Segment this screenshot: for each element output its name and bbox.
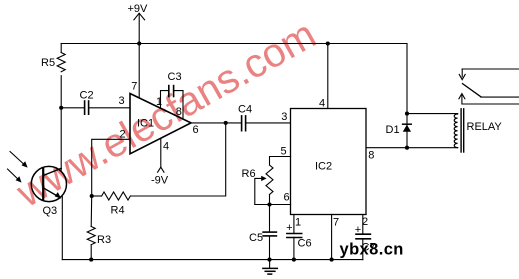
svg-text:+: + (355, 224, 361, 236)
svg-text:R4: R4 (111, 205, 125, 217)
svg-text:5: 5 (281, 146, 287, 158)
svg-text:2: 2 (362, 216, 368, 228)
svg-text:+9V: +9V (128, 3, 149, 15)
svg-text:6: 6 (193, 124, 199, 136)
svg-text:D1: D1 (386, 124, 400, 136)
svg-text:8: 8 (368, 150, 374, 162)
svg-text:C2: C2 (80, 90, 94, 102)
svg-text:R6: R6 (242, 168, 256, 180)
svg-text:4: 4 (319, 98, 325, 110)
svg-text:-9V: -9V (151, 175, 169, 187)
svg-text:C5: C5 (249, 232, 263, 244)
svg-text:R5: R5 (41, 57, 55, 69)
svg-text:C6: C6 (298, 238, 312, 250)
svg-text:RELAY: RELAY (467, 121, 503, 133)
svg-text:7: 7 (131, 81, 137, 93)
svg-text:1: 1 (295, 217, 301, 229)
svg-text:+: + (286, 222, 292, 234)
svg-text:7: 7 (333, 217, 339, 229)
svg-text:3: 3 (119, 95, 125, 107)
svg-text:3: 3 (281, 111, 287, 123)
svg-text:ybx8.cn: ybx8.cn (340, 241, 404, 259)
svg-text:6: 6 (284, 192, 290, 204)
svg-text:C4: C4 (238, 104, 252, 116)
svg-text:4: 4 (163, 141, 169, 153)
svg-text:R3: R3 (97, 234, 111, 246)
svg-text:IC2: IC2 (315, 161, 332, 173)
